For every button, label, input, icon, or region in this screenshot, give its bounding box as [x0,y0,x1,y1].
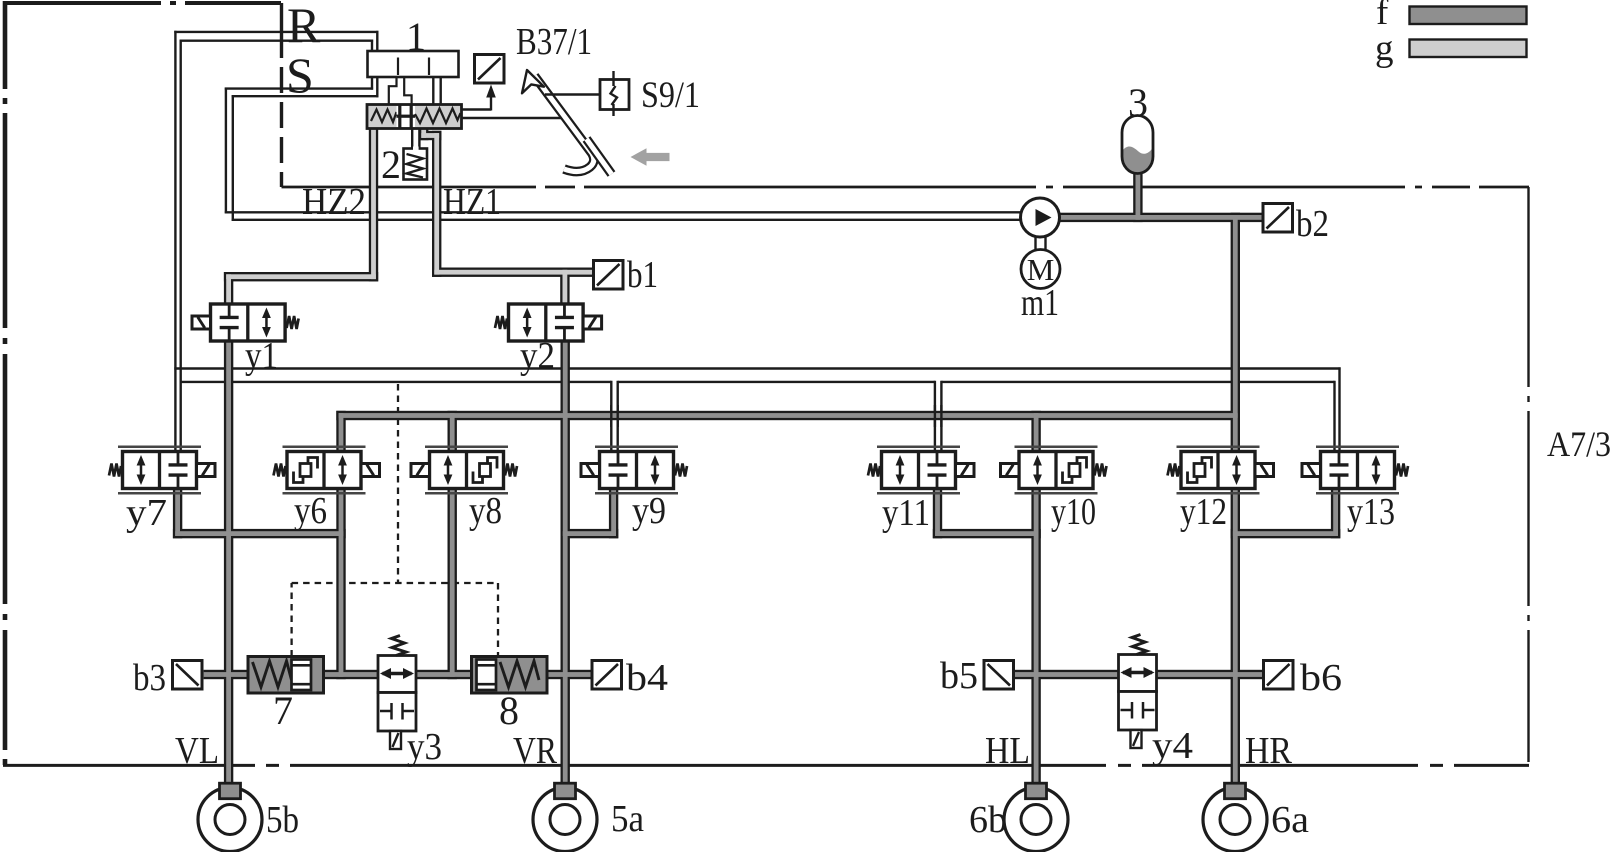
electric motor M [1021,250,1060,289]
wire hydraulic pressure lines (dark) (outline) [173,169,1340,785]
svg-text:VL: VL [175,730,219,772]
svg-text:6b: 6b [969,799,1007,841]
damper 8 [472,657,548,694]
svg-text:y2: y2 [520,335,555,377]
wheel brake 5b (front left) [198,783,262,851]
pressure sensor b5 [984,661,1014,690]
boundary right vertical x=1528 (dash-dot) [1527,187,1529,762]
svg-text:HZ2: HZ2 [302,181,366,223]
wire HZ2 line (master cylinder to valve y1) [226,128,376,306]
svg-text:S: S [286,47,314,103]
wire HZ2 line (master cylinder to valve y1) (outline) [224,128,378,306]
svg-text:6a: 6a [1271,799,1309,841]
release valve y11 [868,447,974,493]
pump m1 [1021,198,1060,237]
svg-text:y3: y3 [407,726,442,768]
pressure sensor B37/1 [475,55,505,84]
svg-text:y9: y9 [632,490,666,532]
wire HZ1 line (master cylinder to b1 and valve y2) (outline) [419,128,596,306]
pressure sensor b4 [592,661,622,690]
release valve y7 [109,447,215,493]
balance valve y3 [378,636,416,750]
brake pedal [522,70,612,174]
damper 7 [248,657,324,694]
reservoir 1 [368,51,459,77]
svg-text:b2: b2 [1296,203,1329,245]
inlet/balance valve y6 [274,447,380,493]
svg-text:A7/3: A7/3 [1547,424,1611,464]
svg-text:y10: y10 [1051,491,1096,533]
wire reservoir port C to master cylinder (double line) [433,77,440,106]
svg-text:y7: y7 [126,492,167,534]
boundary bottom y=762 (dash-dot) [3,764,1529,767]
actuation direction arrow (gray) [631,148,670,165]
svg-text:VR: VR [513,730,558,772]
svg-text:b4: b4 [626,657,668,699]
wheel brake 5a (front right) [533,783,597,851]
wire master cylinder to B37/1 sensor with arrow [462,85,496,111]
svg-text:b1: b1 [627,254,658,296]
svg-text:8: 8 [499,688,519,733]
svg-text:5b: 5b [266,799,299,841]
dashed pilot line (center, vertical x=398) [397,384,399,583]
wire pedal to switch S9/1 [545,93,600,95]
svg-text:y6: y6 [294,490,327,532]
boundary vertical near R/S labels (dash-dot) [280,3,283,187]
svg-text:2: 2 [381,142,401,187]
wire master cylinder to brake pedal [462,117,571,119]
svg-text:y8: y8 [469,490,502,532]
pressure sensor b3 [173,661,203,690]
svg-text:HL: HL [985,730,1030,772]
pressure sensor b1 [594,261,624,290]
svg-text:R: R [287,0,321,53]
wire hydraulic pressure lines (dark) [175,169,1338,785]
inlet/balance valve y12 [1168,447,1274,493]
wire pump to motor [1036,236,1046,250]
wire return branch crossing (y9) [611,405,617,427]
wheel brake 6a (rear right) [1203,783,1267,851]
inlet/balance valve y8 [411,447,517,493]
svg-text:y1: y1 [245,335,278,377]
suction line S: reservoir bottom to pump inlet [225,77,1023,221]
wire reservoir port A to master cylinder [389,77,397,106]
wheel brake 6b (rear left) [1004,783,1068,851]
svg-text:7: 7 [273,688,293,733]
wire return branch crossing (y11) [935,405,942,427]
pressure sensor b6 [1264,661,1294,690]
release valve y9 [581,447,687,493]
dashed valve-block rectangle around 7 / y3 / 8 [292,583,498,657]
balance valve y4 [1119,635,1157,749]
svg-text:HR: HR [1245,730,1293,772]
release valve y13 [1302,447,1408,493]
svg-text:g: g [1375,28,1394,69]
separation valve y1 [192,304,299,341]
svg-text:y4: y4 [1152,725,1193,767]
wire HZ1 line (master cylinder to b1 and valve y2) [421,128,595,306]
boundary horizontal y=187 (dash-dot) [282,186,1530,189]
svg-text:b3: b3 [133,657,166,699]
spring element 2 (pedal feel simulator) [404,128,428,180]
svg-text:y12: y12 [1180,491,1227,533]
svg-text:y13: y13 [1347,491,1395,533]
svg-text:1: 1 [406,14,426,59]
svg-text:b5: b5 [940,655,978,697]
brake light switch S9/1 [600,71,629,116]
svg-text:5a: 5a [611,798,644,840]
svg-text:y11: y11 [882,492,930,534]
inlet/balance valve y10 [1001,447,1107,493]
svg-text:m1: m1 [1021,282,1059,324]
svg-text:b6: b6 [1300,657,1342,699]
separation valve y2 [495,304,602,341]
legend g (master cylinder pressure) [1375,28,1527,69]
svg-text:B37/1: B37/1 [516,21,592,63]
master cylinder (tandem, HZ) [367,105,462,129]
wire reservoir port B to master cylinder [404,77,411,106]
module boundary A7/3 top-left border (dash-dot) [3,1,281,765]
legend f (high pressure) [1376,0,1527,33]
pressure sensor b2 [1263,204,1293,233]
svg-text:HZ1: HZ1 [443,181,501,223]
return line R: reservoir top to left loop and bus to y7/y9/y11/y13 [174,31,1340,453]
svg-text:S9/1: S9/1 [641,75,700,116]
accumulator 3 [1122,116,1153,174]
svg-text:3: 3 [1128,80,1148,125]
